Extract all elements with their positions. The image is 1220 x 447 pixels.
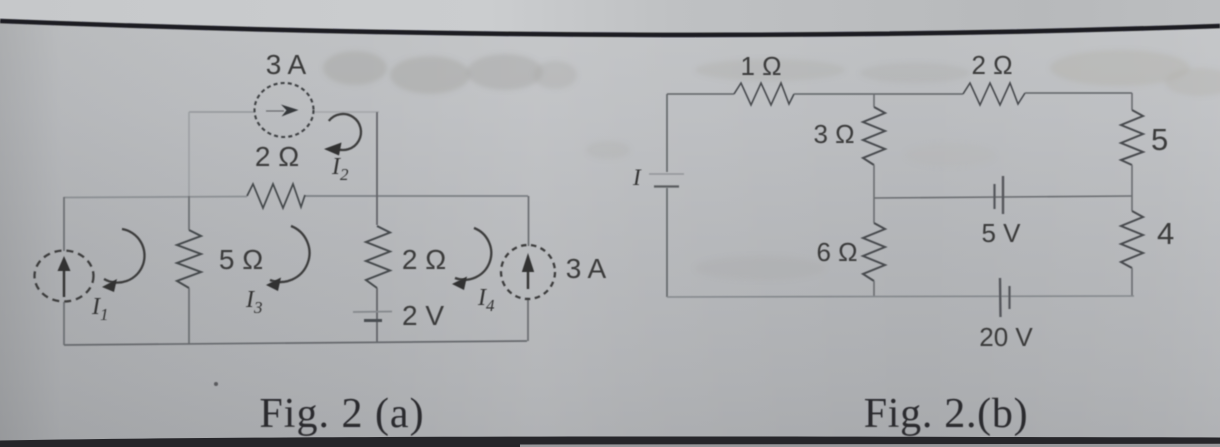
wire: right branch lower (below 3A source)	[527, 298, 529, 341]
wire: top wire between 1-ohm and 2-ohm	[794, 93, 963, 95]
mesh arrow I3 head	[266, 278, 281, 292]
svg-text:3 Ω: 3 Ω	[813, 119, 854, 149]
wire: middle branch between 3-ohm and node	[873, 165, 875, 223]
wire: left branch lower (below I1 source)	[63, 302, 65, 345]
resistor 6-ohm vertical	[863, 223, 885, 281]
resistor 2-ohm horizontal (top middle)	[247, 184, 305, 208]
wire: middle wire right of 2-ohm resistor	[305, 195, 528, 197]
mesh arrow I4 head	[452, 277, 467, 291]
battery 20V short plate	[1008, 286, 1010, 309]
svg-text:3 A: 3 A	[566, 253, 607, 284]
battery 5V short plate	[993, 184, 995, 209]
svg-text:1 Ω: 1 Ω	[740, 51, 781, 81]
mesh arrow I2 arc	[329, 114, 361, 150]
ghost bleed-through marks	[323, 50, 1220, 280]
svg-text:2 Ω: 2 Ω	[255, 141, 299, 172]
wire: middle branch below 6-ohm	[873, 281, 875, 297]
resistor 1-ohm	[734, 83, 794, 105]
wire: 5-ohm branch upper stub	[188, 196, 190, 230]
battery 5V long plate	[1002, 176, 1004, 214]
current source 3A (top) arrow	[266, 105, 299, 117]
svg-text:6 Ω: 6 Ω	[816, 237, 857, 267]
mesh arrow I2 head	[324, 143, 342, 156]
resistor 3-ohm vertical	[863, 107, 885, 165]
page top edge black line	[0, 21, 1220, 35]
mesh arrow I1 arc	[104, 229, 145, 283]
wire: right branch upper (above 3A source)	[528, 196, 530, 246]
svg-text:2 V: 2 V	[402, 300, 444, 331]
current source 3A (top) circle	[255, 83, 314, 137]
svg-text:2 Ω: 2 Ω	[402, 244, 446, 275]
stray ink dot	[214, 382, 218, 386]
bottom gray below edge	[520, 444, 1220, 447]
wire: top loop top-right segment	[313, 111, 379, 113]
white strip above page top edge	[0, 0, 1220, 35]
current source I1 (left) circle	[35, 251, 94, 302]
current source I1 (left) arrow	[58, 256, 71, 297]
svg-text:Fig. 2 (a): Fig. 2 (a)	[259, 391, 424, 437]
wire: left vertical below cell	[666, 188, 668, 297]
svg-text:I: I	[632, 165, 642, 190]
cell long plate (left branch)	[649, 173, 684, 175]
svg-text:20 V: 20 V	[979, 322, 1033, 352]
battery 20V long plate	[999, 278, 1002, 317]
mesh arrow I4 arc	[455, 228, 491, 280]
wire: right vertical top stub	[1131, 93, 1133, 110]
wire: top loop top-left segment	[189, 111, 255, 113]
wire: bottom wire	[64, 341, 527, 345]
wire: right vertical between 5 and 4	[1131, 165, 1133, 211]
resistor 5-ohm vertical	[177, 230, 201, 288]
wire: centre branch below 2-ohm through battery	[376, 288, 378, 342]
mesh arrow I1 head	[102, 279, 117, 292]
wire: mid wire from 3-ohm node to right branch	[874, 196, 1132, 198]
battery 2V long plate	[353, 311, 392, 314]
wire: top wire left of 1-ohm	[667, 93, 734, 95]
wire: top loop left vertical	[188, 112, 190, 196]
resistor 2-ohm (fig b top)	[963, 83, 1025, 105]
cell short plate (left branch)	[654, 185, 679, 187]
svg-text:4: 4	[1157, 216, 1174, 251]
wire: left branch upper (above I1 source)	[63, 197, 65, 251]
wire: left vertical above cell	[666, 94, 668, 172]
wire: centre branch upper (x=377)	[376, 112, 378, 225]
wire: middle branch stub above 3-ohm	[873, 94, 875, 107]
svg-text:5: 5	[1151, 122, 1168, 157]
wire: bottom wire	[667, 296, 1134, 297]
svg-text:2 Ω: 2 Ω	[971, 50, 1012, 80]
bottom dark table edge	[0, 436, 1220, 447]
current source 3A (right) arrow	[522, 253, 534, 289]
wire: 5-ohm branch lower stub	[188, 288, 190, 344]
svg-text:3 A: 3 A	[266, 49, 307, 80]
wire: top wire right of 2-ohm	[1025, 92, 1132, 94]
wire: middle wire left of 2-ohm resistor	[64, 197, 247, 198]
svg-text:5 Ω: 5 Ω	[219, 244, 263, 275]
resistor 4 vertical	[1121, 211, 1143, 268]
mesh arrow I3 arc	[270, 226, 309, 282]
resistor 5 vertical	[1121, 110, 1143, 165]
svg-text:Fig. 2.(b): Fig. 2.(b)	[864, 391, 1029, 437]
battery 2V short plate	[364, 319, 382, 322]
svg-text:5 V: 5 V	[981, 218, 1021, 248]
wire: right vertical below 4	[1131, 268, 1133, 296]
current source 3A (right) circle	[501, 245, 555, 299]
resistor 2-ohm vertical (centre branch)	[366, 226, 390, 288]
